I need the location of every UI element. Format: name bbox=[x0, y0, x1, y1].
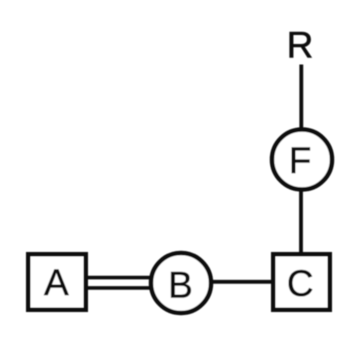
node B (circle) bbox=[151, 253, 211, 313]
svg-text:F: F bbox=[289, 140, 312, 181]
node F (circle) bbox=[272, 130, 332, 190]
node A (square) bbox=[28, 254, 86, 310]
wire B to C (single bond) bbox=[211, 280, 273, 284]
wire R to F bbox=[299, 65, 303, 132]
svg-text:C: C bbox=[287, 263, 314, 304]
wire F to C bbox=[299, 188, 303, 253]
svg-text:R: R bbox=[287, 25, 314, 66]
wire A to B (double bond lower) bbox=[86, 286, 151, 290]
wire A to B (double bond upper) bbox=[86, 276, 151, 280]
node C (square) bbox=[273, 254, 330, 310]
svg-text:B: B bbox=[168, 265, 193, 306]
svg-text:A: A bbox=[44, 262, 69, 303]
